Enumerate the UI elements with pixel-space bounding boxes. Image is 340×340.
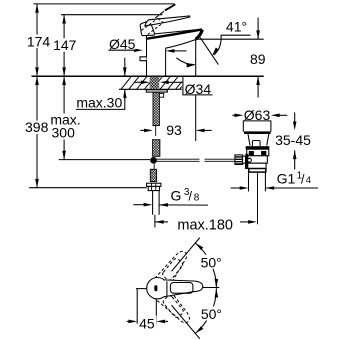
rod below junction xyxy=(153,164,155,169)
hose nut xyxy=(147,183,161,186)
pop-up lever knurled adjuster xyxy=(235,155,243,165)
supply hose xyxy=(152,191,154,215)
threaded shank through deck xyxy=(150,77,160,89)
max30 dimension line lower + underline xyxy=(76,89,125,109)
lever raised dashed outline xyxy=(141,18,163,34)
bottom view centerline right xyxy=(203,287,219,289)
svg-text:50°: 50° xyxy=(201,255,222,271)
label max.180 xyxy=(177,217,235,233)
svg-text:G: G xyxy=(171,188,182,204)
dashed handle rotated -50 (down) xyxy=(155,287,193,328)
top reference line (handle tip level) xyxy=(34,3,175,5)
arrowheads xyxy=(35,4,296,335)
89 dimension shafts xyxy=(257,18,259,40)
svg-text:G1: G1 xyxy=(277,170,296,186)
svg-text:/: / xyxy=(301,172,305,186)
slot on cap xyxy=(154,285,157,291)
label 89 xyxy=(250,51,266,67)
dimension line 174/398 (x=37) xyxy=(36,4,38,188)
max30 dimension line upper xyxy=(124,58,126,76)
flange cup xyxy=(243,121,271,132)
lever blade (raised tip) xyxy=(165,4,176,11)
398 bottom reference line xyxy=(29,187,147,189)
svg-text:50°: 50° xyxy=(201,306,222,322)
svg-text:93: 93 xyxy=(166,122,182,138)
label 50deg upper xyxy=(199,255,224,271)
bottom view +50deg ray xyxy=(172,238,200,272)
collar xyxy=(246,163,267,168)
spout tip face xyxy=(196,30,203,40)
spout horizontal arrow shaft xyxy=(173,50,187,52)
handle cap circle xyxy=(147,278,168,299)
label 50deg lower xyxy=(199,306,224,322)
svg-text:max.180: max.180 xyxy=(177,217,233,233)
washer under deck xyxy=(146,90,167,92)
max300 bottom ref / pull-rod left line xyxy=(59,159,151,161)
dashed handle rotated +50 (up) xyxy=(155,248,193,289)
41deg angle diagonal xyxy=(200,38,218,65)
svg-text:41°: 41° xyxy=(226,19,247,35)
O45 leader underline xyxy=(108,49,134,51)
G3/8 dimension shafts + underline xyxy=(133,204,144,206)
body with side openings xyxy=(247,149,269,156)
flange underside (thick) xyxy=(244,131,271,134)
label max. 300 xyxy=(50,112,81,141)
label 93 xyxy=(166,122,182,138)
svg-text:147: 147 xyxy=(53,37,77,53)
label O63 xyxy=(244,107,271,123)
svg-text:35-45: 35-45 xyxy=(275,132,311,148)
deck bottom line xyxy=(119,88,182,90)
spout front top edge (thick) xyxy=(146,29,202,38)
spout tip vertical extension line xyxy=(195,39,197,76)
clip on rod xyxy=(159,93,163,97)
svg-text:300: 300 xyxy=(52,125,76,141)
cone xyxy=(248,134,269,146)
svg-text:Ø34: Ø34 xyxy=(185,81,212,97)
lower collar (thick) xyxy=(249,169,266,173)
label G1 1/4 xyxy=(277,170,311,186)
svg-text:174: 174 xyxy=(27,33,51,49)
faucet body right edge xyxy=(165,48,167,76)
35-45 dimension shafts xyxy=(294,112,296,122)
tailpipe walls xyxy=(248,172,250,191)
bottom view -50deg ray xyxy=(172,305,200,339)
dark band xyxy=(246,146,270,149)
threaded rod upper xyxy=(153,92,159,126)
svg-text:max.30: max.30 xyxy=(76,95,122,111)
plug notch xyxy=(252,141,260,147)
label O34 xyxy=(185,80,213,97)
svg-text:/: / xyxy=(189,190,193,204)
lever base cap xyxy=(140,21,154,36)
G1 1/4 dimension shafts xyxy=(231,187,242,189)
svg-text:8: 8 xyxy=(194,193,200,204)
label O45 xyxy=(109,36,136,52)
spout back top edge (thin) xyxy=(155,29,200,34)
junction dot xyxy=(150,157,157,164)
label 147 xyxy=(53,37,77,53)
max180 dimension xyxy=(154,215,156,228)
pop-up rod to drain (double line) xyxy=(157,158,200,160)
41deg label leader xyxy=(214,35,251,55)
label 398 xyxy=(25,119,50,135)
O63 dimension shafts xyxy=(232,114,235,116)
deck top line xyxy=(32,75,264,77)
bottom view 45 dimension extension lines xyxy=(136,288,147,290)
label 41deg xyxy=(226,19,247,35)
faucet body left edge xyxy=(146,35,148,77)
label 174 xyxy=(27,33,51,49)
handle lever (white fill over circle) xyxy=(161,280,203,297)
second reference line (grip level) xyxy=(61,14,162,16)
41deg angle arc xyxy=(176,58,194,65)
label 45 bottom xyxy=(138,315,157,331)
svg-text:Ø63: Ø63 xyxy=(244,107,271,123)
deck hatching xyxy=(121,76,182,89)
joint line xyxy=(166,281,168,296)
dimension line 147/max300 (x=64.1) xyxy=(63,15,65,160)
svg-text:45: 45 xyxy=(139,315,155,331)
93 dimension shafts xyxy=(140,129,145,131)
pivot housing xyxy=(246,156,268,163)
svg-text:4: 4 xyxy=(306,175,311,186)
small tab on body left xyxy=(140,57,147,61)
O34 arrows shafts and bracket xyxy=(134,81,142,83)
svg-text:398: 398 xyxy=(25,119,49,135)
svg-text:Ø45: Ø45 xyxy=(109,36,136,52)
drain centerline xyxy=(257,172,259,224)
spout underside xyxy=(166,40,196,49)
label max.30 xyxy=(76,95,124,111)
svg-text:89: 89 xyxy=(250,51,266,67)
rod centerline bit xyxy=(155,126,157,136)
threaded rod lower xyxy=(153,140,160,157)
inner rounded rect xyxy=(170,283,193,294)
label 35-45 xyxy=(275,132,311,148)
label G3/8 xyxy=(171,187,200,204)
89 top reference line from spout tip xyxy=(198,38,264,40)
lever grip (slim wedge) xyxy=(145,16,190,26)
bottom view 50deg arcs xyxy=(195,243,216,288)
